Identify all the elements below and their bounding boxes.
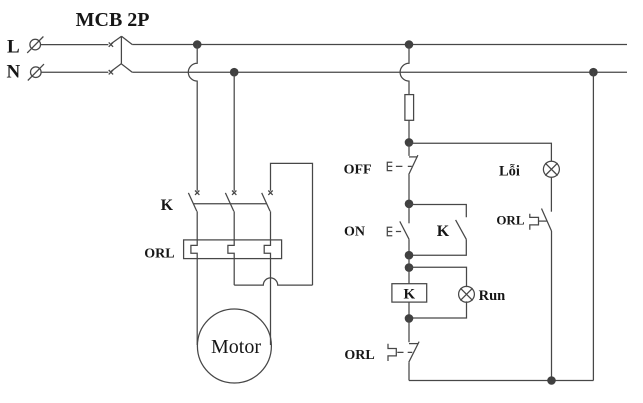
svg-text:N: N — [7, 62, 21, 83]
breaker MCB pole N — [109, 64, 133, 75]
node N-right — [589, 68, 598, 77]
wire pole2 to connector — [233, 259, 235, 286]
wire bottom return — [409, 380, 593, 382]
svg-text:ORL: ORL — [496, 213, 525, 228]
wire ORL fault to bottom — [551, 231, 553, 381]
node bottom-right — [547, 376, 556, 385]
wire ON lower — [408, 239, 410, 255]
wire OFF upper — [408, 142, 410, 156]
lamp Run — [459, 286, 475, 302]
contactor K pole 1 — [188, 191, 199, 212]
svg-text:Run: Run — [479, 288, 506, 304]
wire connector with hop — [234, 278, 312, 285]
wire fault feed — [409, 143, 551, 161]
ORL heater pole3 — [264, 240, 270, 259]
wire K-aux branch top — [409, 205, 466, 218]
wire right drop — [592, 72, 594, 380]
node N-pole2 — [230, 68, 239, 77]
svg-text:OFF: OFF — [344, 162, 372, 177]
MCB linkage — [120, 36, 122, 64]
svg-text:L: L — [7, 37, 20, 58]
wire node to coil — [408, 255, 410, 284]
svg-text:ON: ON — [344, 224, 365, 239]
node coil-bottom — [405, 314, 414, 323]
wire L input — [41, 44, 109, 46]
wire pole1 to ORL — [196, 211, 198, 240]
fuse F1 — [405, 95, 414, 121]
wire pole1 to motor — [196, 259, 198, 345]
node L-control — [405, 40, 414, 49]
svg-text:ORL: ORL — [144, 247, 174, 262]
ORL heater pole2 — [228, 240, 234, 259]
pushbutton ON (NO) — [387, 221, 409, 239]
svg-text:MCB 2P: MCB 2P — [76, 9, 150, 31]
contact K auxiliary (NO) — [456, 220, 467, 239]
wire control drop — [400, 45, 409, 95]
wire pole2 drop — [233, 72, 235, 191]
node ON-top — [405, 200, 414, 209]
wire lamp to ORL fault contact — [550, 177, 552, 211]
wire pole3 top loop — [271, 163, 313, 285]
wire fuse to node — [408, 120, 410, 142]
wire pole3 to motor — [270, 259, 272, 345]
svg-text:Lỗi: Lỗi — [499, 164, 520, 180]
node control-top — [405, 138, 414, 147]
svg-text:Motor: Motor — [211, 336, 261, 358]
contactor K pole 2 — [225, 191, 236, 212]
contactor K pole 3 — [262, 191, 273, 212]
svg-text:K: K — [161, 197, 174, 214]
ORL contact (NC) — [388, 342, 419, 363]
coil K — [392, 284, 427, 302]
wire ON upper — [408, 204, 410, 224]
wire coil to node — [408, 302, 410, 318]
wire pole2 to ORL — [233, 211, 235, 240]
node L-pole1 — [193, 40, 202, 49]
motor M — [197, 309, 271, 383]
overload relay ORL block — [184, 240, 282, 259]
wire N bus — [132, 71, 627, 73]
ORL heater pole1 — [191, 240, 197, 259]
wire pole3 to ORL — [270, 211, 272, 240]
wire N input — [41, 71, 108, 73]
wire run branch top — [409, 267, 467, 287]
wire run branch bottom — [409, 301, 467, 318]
node coil-top — [405, 251, 414, 260]
wire pole1 drop — [188, 45, 197, 191]
svg-text:K: K — [437, 223, 450, 240]
ORL fault contact (NO) — [530, 209, 552, 232]
svg-text:ORL: ORL — [344, 348, 374, 363]
wire node to ORL contact — [408, 318, 410, 342]
wire K-aux branch bottom — [409, 239, 466, 255]
wire L bus — [132, 44, 627, 46]
svg-text:K: K — [403, 287, 415, 303]
node run-top — [405, 263, 414, 272]
lamp Loi — [543, 161, 559, 177]
breaker MCB pole L — [109, 36, 133, 47]
pushbutton OFF (NC) — [387, 155, 418, 175]
contactor linkage — [193, 203, 266, 205]
terminal L — [27, 37, 43, 53]
wire ORL contact to bottom — [408, 362, 410, 380]
wire OFF to node — [408, 175, 410, 204]
terminal N — [28, 64, 44, 80]
